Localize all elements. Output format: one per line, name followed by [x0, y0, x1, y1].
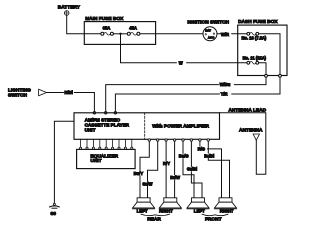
svg-text:Br/W: Br/W: [170, 175, 180, 180]
svg-text:W/R: W/R: [221, 32, 229, 37]
fuse No.11 (15A): [243, 55, 267, 64]
equalizer terminal 6: [112, 147, 114, 149]
svg-text:UNIT: UNIT: [85, 127, 96, 132]
speaker rear-left: [133, 198, 155, 209]
wire: [113, 33, 127, 35]
svg-text:Gr/Bl: Gr/Bl: [187, 167, 197, 172]
svg-text:Bu/G: Bu/G: [179, 154, 189, 159]
antenna: [239, 127, 263, 140]
equalizer terminal 1: [80, 147, 82, 149]
speaker rear-right: [159, 198, 181, 209]
svg-text:SWITCH: SWITCH: [8, 93, 27, 99]
equalizer terminal 2: [86, 147, 88, 149]
fuse 45A: [127, 26, 140, 36]
wire Bu/G front-left +: [183, 141, 194, 197]
equalizer terminal 5: [105, 147, 107, 149]
fuse 65A: [101, 26, 114, 36]
svg-text:BATTERY: BATTERY: [58, 5, 81, 11]
wire radio to equalizer 6: [112, 139, 114, 147]
wire Y/R to radio: [115, 77, 280, 111]
svg-text:RIGHT: RIGHT: [159, 208, 173, 213]
terminal on dash box bottom (W/Bu): [265, 74, 268, 77]
wire Br/W rear-right -: [174, 141, 176, 197]
wire Bu/Y rear-left +: [140, 141, 149, 197]
terminal Gr/Bl on radio bottom edge: [190, 139, 192, 141]
wire fuse11 to terminal: [259, 63, 266, 75]
equalizer terminal 3: [92, 147, 94, 149]
terminal Gr/W on radio bottom edge: [157, 139, 159, 141]
svg-text:Br/Bl: Br/Bl: [204, 153, 214, 158]
svg-text:45A: 45A: [129, 26, 137, 31]
wire radio to equalizer 8: [124, 139, 126, 147]
fuse No.16 (7.5A): [242, 32, 267, 40]
svg-text:UNIT: UNIT: [90, 158, 101, 164]
terminal W/Bu on radio top edge: [105, 112, 107, 114]
wire radio to equalizer 3: [92, 139, 94, 147]
svg-text:R/G: R/G: [198, 146, 205, 151]
svg-text:Gr/W: Gr/W: [142, 181, 152, 186]
svg-text:ANTENNA LEAD: ANTENNA LEAD: [228, 108, 266, 114]
wire Gr/W rear-left -: [148, 141, 158, 197]
wire W/R to dash fuse box: [217, 33, 248, 35]
svg-text:No. 11 (15A): No. 11 (15A): [243, 55, 267, 60]
wire radio to equalizer 2: [86, 139, 88, 147]
terminal Br/Bl on radio bottom edge: [207, 139, 209, 141]
wire radio to equalizer 7: [118, 139, 120, 147]
terminal on dash box bottom (Y/R): [279, 74, 282, 77]
ignition switch: [187, 20, 229, 41]
rear bracket: [141, 214, 169, 215]
equalizer terminal 9: [131, 147, 133, 149]
wire fuse16 to terminal: [259, 34, 280, 75]
wire radio to equalizer 9: [131, 139, 133, 147]
front bracket: [202, 214, 228, 215]
svg-text:FRONT: FRONT: [205, 217, 222, 223]
terminal Br/W on radio bottom edge: [173, 139, 175, 141]
terminal Bu/Y on radio bottom edge: [148, 139, 150, 141]
svg-text:W/Bu: W/Bu: [220, 82, 231, 87]
ground G9: [50, 203, 60, 216]
wire radio to equalizer 1: [80, 139, 82, 147]
junction node: [119, 33, 121, 35]
radio unit box: [74, 113, 220, 140]
dashed divider: [144, 113, 146, 140]
svg-text:RIGHT: RIGHT: [220, 208, 234, 213]
equalizer terminal 8: [124, 147, 126, 149]
svg-text:65A: 65A: [103, 26, 111, 31]
svg-text:ANTENNA: ANTENNA: [239, 127, 263, 133]
svg-text:Y/R: Y/R: [221, 92, 228, 97]
terminal R/Y on radio bottom edge: [165, 139, 167, 141]
wire W/Bu to radio: [106, 77, 266, 111]
terminal Y/R on radio top edge: [114, 112, 116, 114]
svg-text:Bu/Y: Bu/Y: [134, 171, 144, 176]
equalizer unit: [77, 149, 136, 168]
wire radio to equalizer 4: [99, 139, 101, 147]
speaker front-right: [215, 198, 237, 209]
wire R/G front-right +: [200, 141, 222, 197]
svg-text:IGNITION SWITCH: IGNITION SWITCH: [187, 20, 229, 26]
svg-text:MAIN FUSE BOX: MAIN FUSE BOX: [85, 16, 124, 22]
ground wire: [54, 121, 74, 203]
battery: [58, 5, 81, 16]
svg-text:DASH FUSE BOX: DASH FUSE BOX: [238, 19, 278, 25]
svg-text:With POWER AMPLIFIER: With POWER AMPLIFIER: [152, 124, 209, 130]
antenna lead: [220, 113, 266, 175]
wire R/Bl to radio: [47, 93, 95, 112]
wire R/Y rear-right +: [165, 141, 167, 197]
svg-text:R/Y: R/Y: [163, 161, 170, 166]
svg-text:LEFT: LEFT: [137, 208, 148, 213]
terminal Bu/G on radio bottom edge: [182, 139, 184, 141]
wire radio to equalizer 5: [105, 139, 107, 147]
svg-text:LEFT: LEFT: [194, 208, 205, 213]
equalizer terminal 4: [99, 147, 101, 149]
terminal R/Bl on radio top edge: [93, 112, 95, 114]
svg-text:BAT: BAT: [205, 28, 211, 32]
svg-text:G9: G9: [50, 211, 56, 216]
wire Gr/Bl front-left -: [191, 141, 202, 197]
wire battery to main fuse box: [67, 15, 101, 33]
wire W from junction to fuse No.11: [121, 34, 249, 63]
main fuse box: [84, 22, 155, 45]
dash fuse box: [238, 25, 287, 75]
svg-text:ACC: ACC: [208, 36, 215, 40]
svg-text:R/Bl: R/Bl: [64, 90, 72, 95]
speaker front-left: [187, 198, 209, 209]
equalizer terminal 7: [118, 147, 120, 149]
wire Br/Bl front-right -: [208, 141, 229, 197]
svg-text:W: W: [179, 60, 183, 65]
svg-text:No. 16 (7.5A): No. 16 (7.5A): [242, 36, 267, 41]
terminal R/G on radio bottom edge: [199, 139, 201, 141]
wire to ignition switch: [140, 33, 203, 35]
lighting switch: [8, 88, 47, 99]
svg-text:REAR: REAR: [147, 217, 161, 223]
